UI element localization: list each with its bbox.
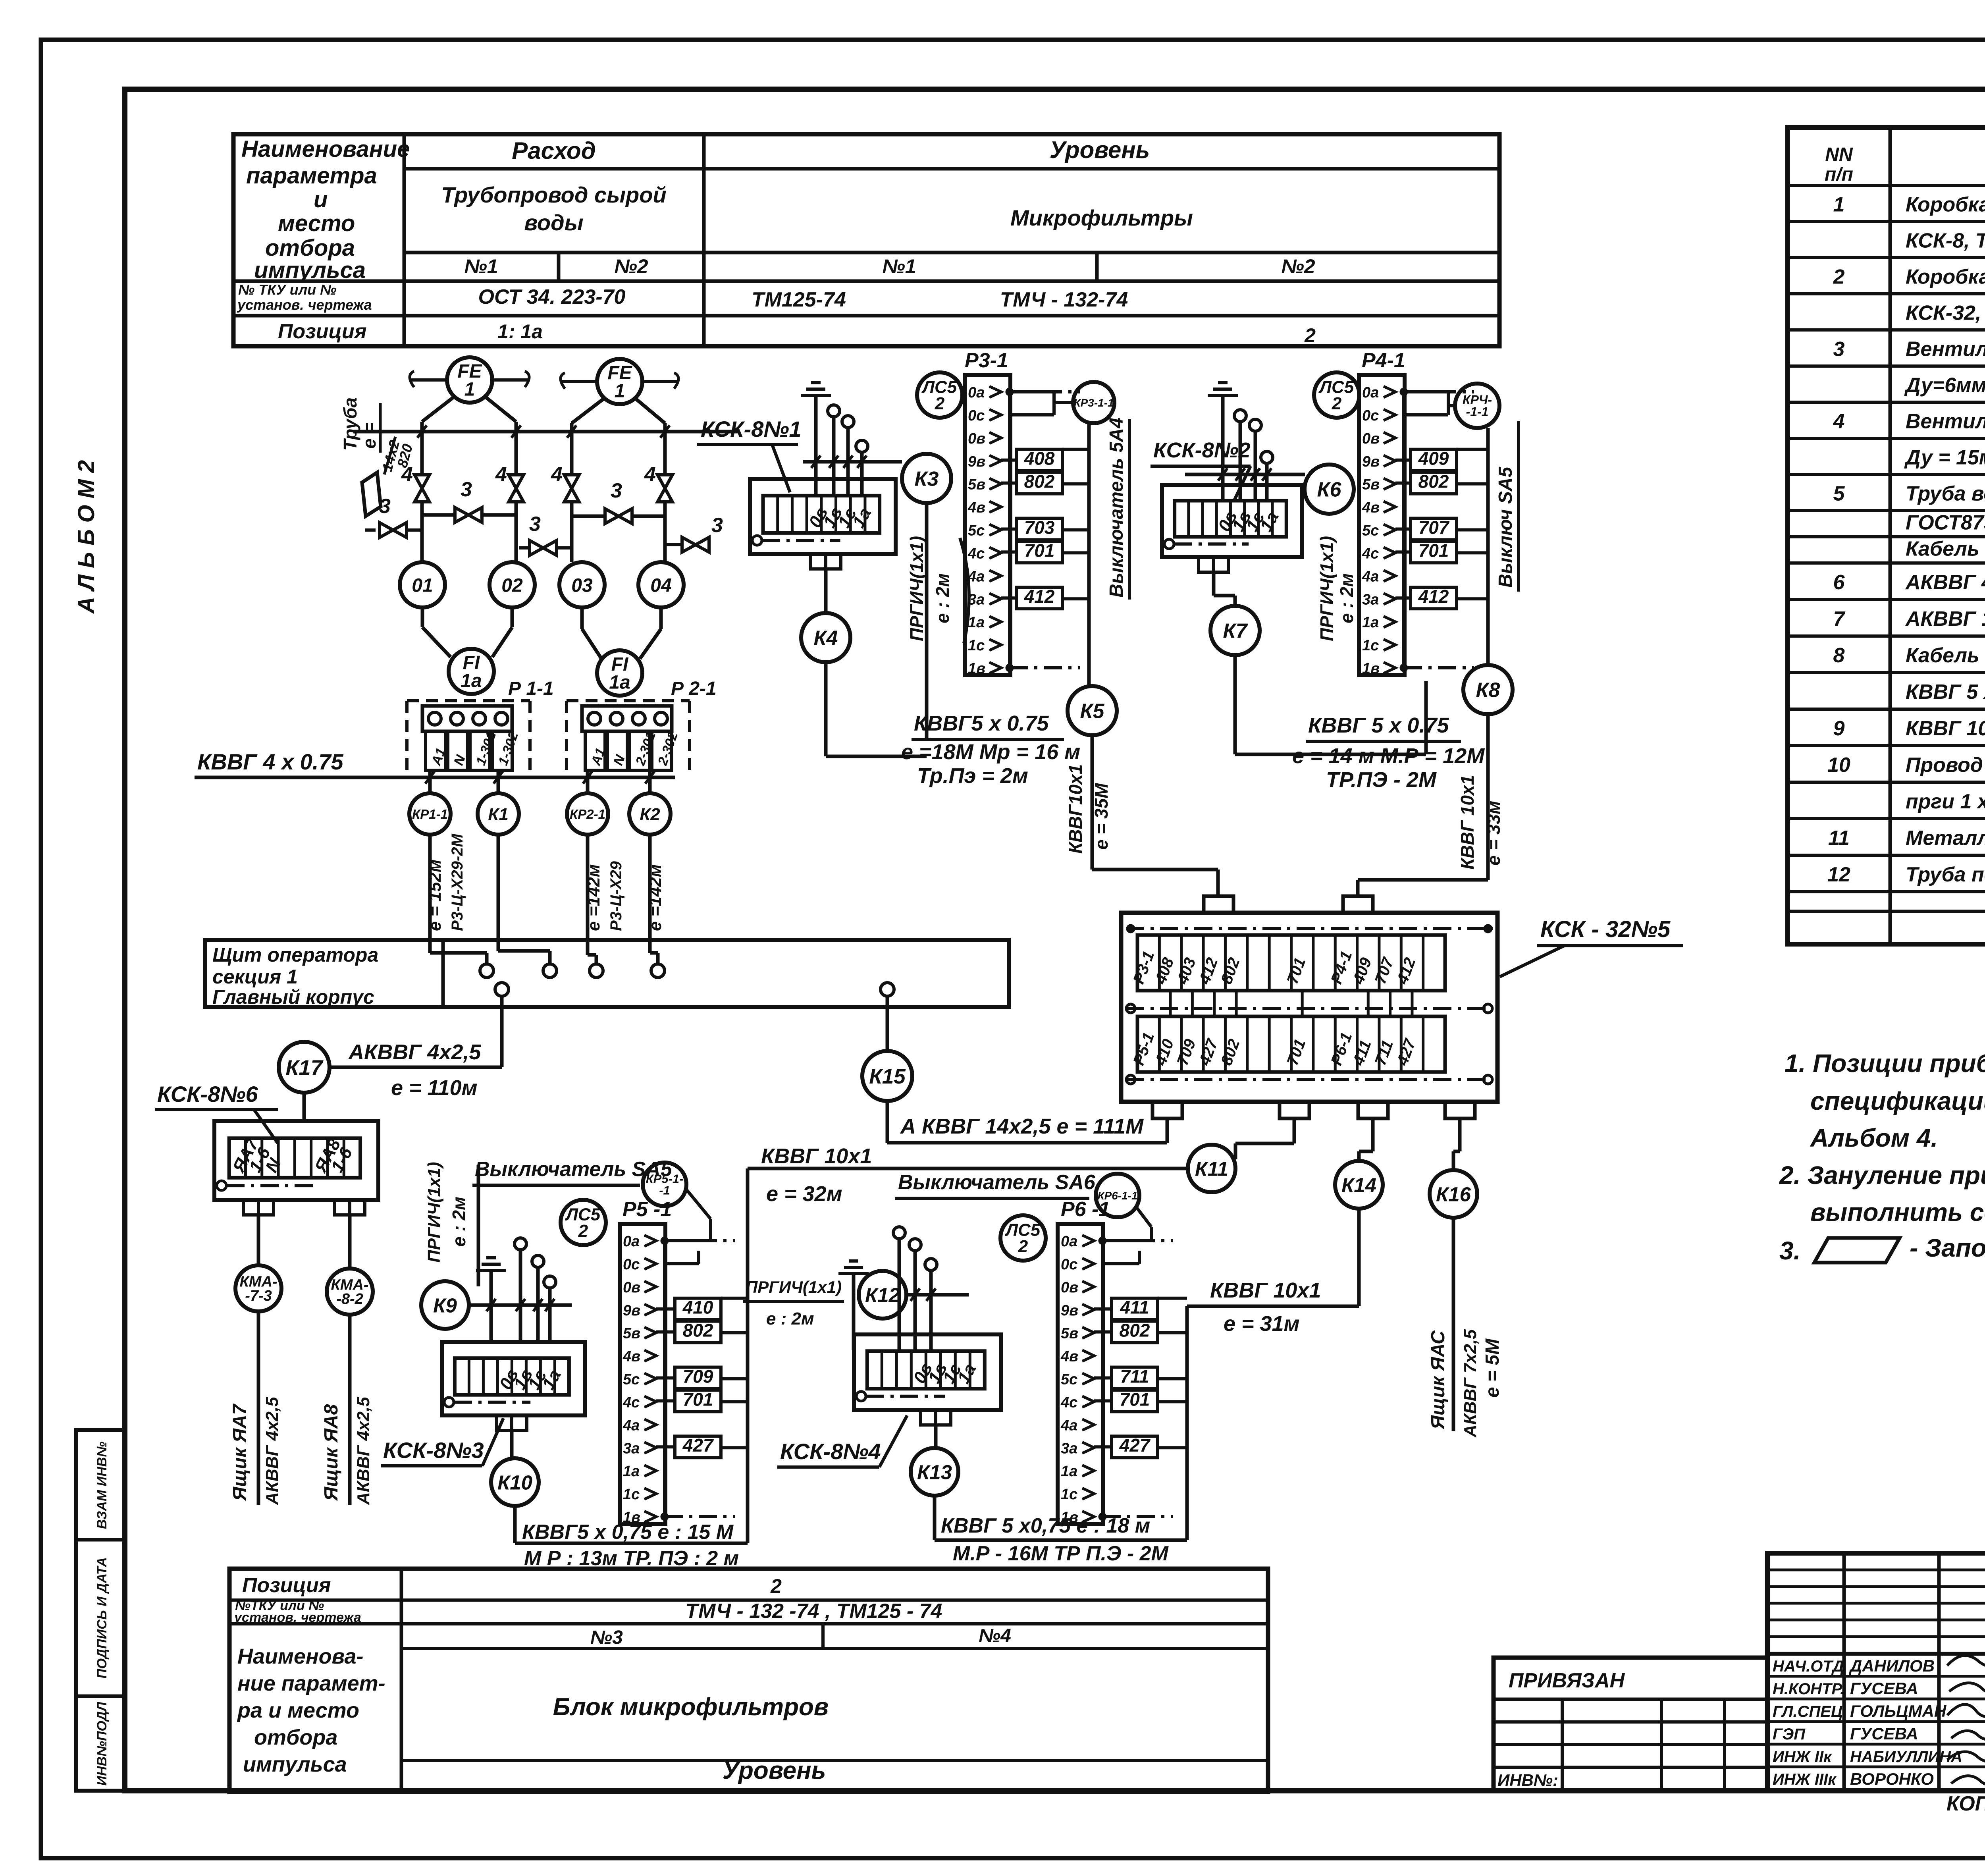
svg-text:Главный корпус: Главный корпус [212, 986, 374, 1008]
svg-text:2: 2 [1833, 266, 1845, 289]
svg-text:ТМЧ - 132 -74 , ТМ125: ТМЧ - 132 -74 , ТМ125 - 74 [686, 1600, 942, 1623]
terminal row P5-1 wire 410 [675, 1298, 721, 1320]
svg-text:412: 412 [1024, 586, 1055, 607]
svg-text:КР2-1: КР2-1 [570, 807, 605, 821]
wire stub to K16 [1458, 1118, 1462, 1151]
svg-text:К9: К9 [433, 1294, 457, 1317]
svg-text:Р3-Ц-Х29-2М: Р3-Ц-Х29-2М [449, 833, 466, 931]
impulse lines from FE [422, 397, 454, 422]
wire stub to K11 [1293, 1118, 1296, 1143]
svg-text:е : 2м: е : 2м [449, 1197, 469, 1247]
valve 4 (2) [509, 475, 523, 502]
svg-text:Ящик ЯАС: Ящик ЯАС [1428, 1330, 1449, 1430]
trunk cable to K5 [1087, 423, 1091, 686]
svg-text:КСК - 32№5: КСК - 32№5 [1540, 916, 1671, 942]
terminal row P4-1 wire line 412 [1395, 596, 1411, 600]
svg-text:1: 1 [615, 380, 625, 401]
svg-text:409: 409 [1418, 448, 1449, 469]
pressure tap 03 [559, 562, 605, 607]
svg-text:Р 1-1: Р 1-1 [508, 678, 554, 699]
svg-text:5с: 5с [623, 1371, 640, 1388]
svg-text:А КВВГ 14х2,5 е = 111М: А КВВГ 14х2,5 е = 111М [900, 1114, 1144, 1138]
svg-text:ВЗАМ ИНВ№: ВЗАМ ИНВ№ [94, 1442, 110, 1529]
svg-text:Выключатель 5А4: Выключатель 5А4 [1106, 418, 1127, 598]
wire pins to K6 [1185, 473, 1305, 476]
cable circle К4 [801, 613, 850, 662]
cable circle К2 [629, 793, 671, 835]
svg-text:К6: К6 [1317, 478, 1342, 501]
cable AKVVG14x2.5 e111 [886, 1101, 889, 1143]
svg-text:Трубопровод сырой: Трубопровод сырой [441, 182, 666, 207]
svg-text:6: 6 [1833, 571, 1845, 594]
svg-text:К8: К8 [1476, 679, 1500, 702]
svg-text:0в: 0в [1061, 1279, 1078, 1296]
svg-text:КСК-8№6: КСК-8№6 [157, 1082, 258, 1107]
svg-text:спецификации оборудования А: спецификации оборудования АТХ. СО. [1810, 1087, 1985, 1115]
svg-text:КВВГ 5 х 0.75: КВВГ 5 х 0.75 [1308, 713, 1449, 737]
lines to flow indicators [421, 607, 424, 627]
ground symbol 2 [1208, 394, 1238, 397]
cable circle К9 [421, 1281, 469, 1329]
svg-text:КСК-8№4: КСК-8№4 [780, 1439, 881, 1464]
svg-text:Коробка соединительная: Коробка соединительная [1906, 193, 1985, 216]
svg-text:ГУСЕВА: ГУСЕВА [1850, 1679, 1918, 1698]
cable circle К8 [1463, 665, 1513, 714]
cable K5 to KCK-32 [1091, 735, 1094, 870]
svg-text:5в: 5в [1061, 1325, 1078, 1342]
svg-text:411: 411 [1120, 1297, 1149, 1318]
wire KCK-8N1 to K4 [824, 569, 828, 613]
svg-text:№3: №3 [590, 1627, 623, 1648]
wire K9 up [477, 1165, 480, 1286]
svg-text:1с: 1с [968, 637, 985, 654]
svg-text:NN: NN [1825, 144, 1853, 165]
svg-text:2: 2 [578, 1221, 588, 1241]
svg-text:5: 5 [1833, 482, 1845, 505]
svg-text:установ. чертежа: установ. чертежа [233, 1610, 361, 1625]
cable K16 down [1452, 1218, 1455, 1431]
svg-text:секция 1: секция 1 [212, 966, 298, 988]
svg-text:4с: 4с [967, 545, 985, 562]
svg-text:КСК-32, ТУ36. 1753: КСК-32, ТУ36. 1753 [1906, 302, 1985, 325]
svg-text:4: 4 [1833, 410, 1845, 433]
svg-text:ВОРОНКО: ВОРОНКО [1850, 1770, 1934, 1788]
wires P4-1 to trunk [1456, 482, 1488, 486]
terminal row P6-1 wire line 411 [1094, 1307, 1112, 1311]
valve 4 (3) [564, 475, 579, 502]
pins KCK-8N3 [515, 1238, 526, 1250]
cable circle КМА-8-2 [327, 1269, 373, 1315]
svg-text:е = 33м: е = 33м [1483, 801, 1504, 866]
cable circle КР6-1-1 [1096, 1174, 1139, 1217]
svg-text:Р4-1: Р4-1 [1362, 349, 1405, 372]
svg-text:11: 11 [1828, 827, 1850, 850]
svg-text:е : 2м: е : 2м [932, 573, 953, 623]
wire K4 cable [824, 662, 828, 756]
junction box KCK-32 N5 outline [1121, 913, 1497, 1102]
terminal row P6-1 wire 701 [1112, 1390, 1158, 1411]
junction box KCK-8N2 [1162, 485, 1302, 557]
svg-text:4с: 4с [1060, 1394, 1077, 1411]
svg-text:е : 2м: е : 2м [1336, 573, 1357, 623]
junction box KCK-8N6 [214, 1121, 378, 1200]
svg-text:2: 2 [935, 394, 945, 413]
monitor LC5 group5 [1000, 1215, 1046, 1261]
svg-text:ИНЖ IIIк: ИНЖ IIIк [1773, 1771, 1837, 1788]
svg-text:Кабель контрольный с медной жи: Кабель контрольный с медной жилой [1906, 644, 1985, 667]
svg-text:2: 2 [1018, 1237, 1028, 1256]
svg-text:ГОЛЬЦМАН: ГОЛЬЦМАН [1850, 1702, 1947, 1720]
svg-text:Блок микрофильтров: Блок микрофильтров [553, 1693, 829, 1721]
svg-text:4а: 4а [1060, 1417, 1077, 1434]
svg-text:3.: 3. [1779, 1236, 1800, 1265]
svg-text:4в: 4в [622, 1348, 640, 1365]
ground symbol 4 [476, 1269, 506, 1272]
svg-text:е = 14 м М.Р = 12М: е = 14 м М.Р = 12М [1292, 744, 1485, 768]
svg-text:К14: К14 [1341, 1174, 1376, 1196]
monitor LC5 group2 [917, 372, 962, 418]
wires KMA down [257, 1311, 260, 1505]
svg-text:К4: К4 [814, 627, 838, 650]
svg-text:1в: 1в [1061, 1509, 1078, 1526]
svg-text:Р 2-1: Р 2-1 [671, 678, 717, 699]
svg-text:КВВГ 4 х 0.75: КВВГ 4 х 0.75 [197, 749, 343, 774]
svg-text:НАЧ.ОТД: НАЧ.ОТД [1773, 1658, 1844, 1675]
wires P6-1 to trunk [1158, 1331, 1187, 1334]
svg-text:0а: 0а [1362, 384, 1379, 401]
svg-text:7: 7 [1833, 607, 1846, 630]
svg-text:К2: К2 [640, 805, 660, 824]
svg-text:Уровень: Уровень [723, 1757, 826, 1784]
svg-text:КР1-1: КР1-1 [412, 807, 448, 821]
wires KCK-8N6 to KMA [257, 1215, 260, 1265]
svg-text:прги 1 х 1 кв. мм.: прги 1 х 1 кв. мм. [1906, 790, 1985, 813]
svg-text:427: 427 [682, 1435, 714, 1456]
svg-text:Вентиль запорный муфтовый: Вентиль запорный муфтовый [1906, 410, 1985, 433]
svg-text:е = 5М: е = 5М [1482, 1338, 1503, 1398]
cable K10 KVVG5x0.75 [513, 1506, 517, 1543]
wire K17 to KCK-8N6 [303, 1093, 306, 1121]
terminal row P3-1 wire 408 [1016, 449, 1062, 471]
wires KP6-1-1 loop [1103, 1239, 1151, 1242]
svg-text:АКВВГ 4 х 2.5 кв.мм: АКВВГ 4 х 2.5 кв.мм [1905, 571, 1985, 594]
cable circle К13 [911, 1448, 958, 1496]
svg-text:е = 152м: е = 152м [425, 859, 445, 931]
svg-text:Ду = 15мм, 15ч 8П2: Ду = 15мм, 15ч 8П2 [1904, 446, 1985, 469]
svg-text:802: 802 [1120, 1320, 1150, 1341]
svg-text:5с: 5с [968, 523, 985, 539]
equalizer valve 3 (1) [455, 507, 482, 522]
svg-text:2: 2 [770, 1575, 782, 1597]
svg-text:1с: 1с [1362, 637, 1379, 654]
pins KCK-8N2 [1234, 410, 1246, 422]
svg-text:9в: 9в [968, 453, 985, 470]
svg-text:3: 3 [529, 513, 541, 536]
cable circle КР2-1 [567, 793, 608, 835]
svg-text:ТР.ПЭ - 2М: ТР.ПЭ - 2М [1326, 768, 1437, 792]
terminal row P3-1 wire 701 [1016, 541, 1062, 563]
monitor LC5 group3 [1314, 372, 1359, 418]
svg-text:4: 4 [551, 463, 563, 486]
svg-text:ТМ125-74: ТМ125-74 [752, 288, 846, 311]
wire pins to K9 [469, 1303, 572, 1307]
trunk cable to K8 [1486, 428, 1490, 665]
wire stub to K14 [1371, 1118, 1375, 1151]
pins KCK-8N4 [893, 1227, 905, 1239]
svg-text:ГЛ.СПЕЦ.: ГЛ.СПЕЦ. [1773, 1703, 1847, 1720]
terminal row P3-1 wire line 802 [1001, 482, 1016, 485]
svg-text:отбора: отбора [254, 1726, 337, 1749]
terminal row P5-1 wire line 427 [656, 1445, 675, 1448]
svg-text:3а: 3а [623, 1440, 640, 1457]
svg-text:1а: 1а [968, 614, 985, 631]
terminal row P5-1 wire 802 [675, 1321, 721, 1343]
valve connection lines [420, 502, 424, 562]
pressure tap 02 [490, 562, 535, 607]
terminal row P3-1 wire line 408 [1001, 459, 1016, 462]
svg-text:709: 709 [683, 1366, 713, 1386]
terminal row P4-1 strip [1359, 375, 1405, 675]
svg-text:-1-1: -1-1 [1466, 405, 1489, 419]
cable K8 to KCK-32 [1486, 714, 1490, 880]
wire KCK-8N4 to K13 [934, 1425, 938, 1448]
svg-text:707: 707 [1418, 517, 1450, 538]
svg-text:Металлорукав Р3-Ц-Х29: Металлорукав Р3-Ц-Х29 [1906, 827, 1985, 850]
svg-text:Вентиль запорный муфтовый: Вентиль запорный муфтовый [1906, 338, 1985, 361]
cable circle КМА-7-3 [235, 1265, 281, 1311]
svg-text:Альбом 4.: Альбом 4. [1810, 1124, 1938, 1152]
svg-text:КВВГ5 х 0.75: КВВГ5 х 0.75 [914, 711, 1049, 735]
svg-text:4а: 4а [967, 568, 985, 585]
terminal row P6-1 strip [1058, 1224, 1103, 1524]
svg-text:ПРГИЧ(1х1): ПРГИЧ(1х1) [746, 1278, 842, 1296]
svg-text:воды: воды [524, 210, 583, 235]
svg-text:К11: К11 [1195, 1157, 1228, 1180]
terminal row P4-1 wire line 409 [1395, 459, 1411, 462]
wire pins to K3 [803, 460, 902, 464]
terminal row P5-1 wire 709 [675, 1367, 721, 1389]
svg-text:Коробка соединительная: Коробка соединительная [1906, 266, 1985, 289]
svg-text:импульса: импульса [243, 1753, 347, 1776]
wire pins to K12 [906, 1293, 969, 1297]
svg-text:КР3-1-1: КР3-1-1 [1073, 397, 1114, 409]
svg-text:параметра: параметра [246, 163, 377, 189]
svg-text:Тр.Пэ = 2м: Тр.Пэ = 2м [917, 764, 1028, 788]
svg-text:3: 3 [611, 479, 622, 502]
pins KCK-8N1 [828, 405, 840, 417]
svg-text:КВВГ 10х1: КВВГ 10х1 [1210, 1278, 1321, 1302]
wire K3 down [925, 503, 929, 738]
svg-text:КСК-8№3: КСК-8№3 [383, 1438, 484, 1463]
operator panel [205, 940, 1009, 1007]
svg-text:е =18М Мр = 16 м: е =18М Мр = 16 м [901, 740, 1080, 764]
KCK-32 upper terminal row [1137, 935, 1445, 991]
terminal row P5-1 wire line 701 [656, 1399, 675, 1402]
wires K circles to operator panel [428, 835, 432, 953]
svg-text:2: 2 [1304, 324, 1316, 347]
svg-text:К5: К5 [1080, 700, 1105, 723]
terminal row P4-1 wire 701 [1411, 541, 1457, 563]
flow indicator FI2 [597, 650, 642, 696]
svg-text:ПРИВЯЗАН: ПРИВЯЗАН [1509, 1669, 1625, 1692]
svg-text:Кабель контрольный ГОСТ1508-78: Кабель контрольный ГОСТ1508-78Е [1906, 538, 1985, 561]
wire panel to K15 [886, 996, 889, 1051]
bottom table grid [229, 1569, 1268, 1792]
svg-text:ПРГИЧ(1х1): ПРГИЧ(1х1) [906, 536, 927, 641]
terminal row P5-1 wire line 410 [656, 1307, 675, 1311]
svg-text:8: 8 [1833, 644, 1845, 667]
privyazan block [1494, 1658, 1767, 1791]
svg-text:1в: 1в [623, 1509, 640, 1526]
svg-text:701: 701 [1120, 1389, 1150, 1409]
valve 4 (1) [414, 475, 429, 502]
svg-text:ИНВ№ПОДЛ: ИНВ№ПОДЛ [94, 1702, 110, 1786]
svg-text:1с: 1с [1061, 1486, 1077, 1503]
svg-text:АКВВГ 7х2,5: АКВВГ 7х2,5 [1461, 1329, 1480, 1438]
cable circle К17 [279, 1042, 330, 1093]
pressure tap 04 [638, 562, 684, 607]
cable circle К14 [1335, 1161, 1383, 1209]
svg-text:АКВВГ 4х2,5: АКВВГ 4х2,5 [354, 1397, 373, 1505]
svg-text:Н.КОНТР.: Н.КОНТР. [1773, 1680, 1844, 1698]
svg-text:ПРГИЧ(1х1): ПРГИЧ(1х1) [1316, 536, 1337, 641]
cable K11 KVVG10x1 e32 [748, 1167, 1188, 1170]
svg-text:КСК-8, ТУ36. 1753: КСК-8, ТУ36. 1753 [1906, 229, 1985, 253]
cable circle К12 [859, 1271, 906, 1319]
svg-text:и: и [314, 187, 328, 212]
cable circle К5 [1068, 686, 1117, 735]
KCK-32 lower terminal row [1137, 1016, 1445, 1072]
svg-text:К7: К7 [1223, 620, 1248, 643]
svg-text:802: 802 [683, 1320, 713, 1341]
pressure tap 01 [400, 562, 445, 607]
ground symbol 5 [838, 1272, 869, 1275]
blank parallelogram [362, 472, 381, 516]
terminal row P3-1 strip [965, 375, 1010, 675]
drain valve 3 (1) [380, 523, 407, 537]
svg-text:4: 4 [495, 463, 507, 486]
table A grid [233, 134, 1499, 346]
svg-text:ГЭП: ГЭП [1773, 1726, 1806, 1743]
svg-text:ПОДПИСЬ И ДАТА: ПОДПИСЬ И ДАТА [94, 1557, 110, 1679]
terminal row P4-1 wire line 701 [1395, 550, 1411, 553]
terminal row P6-1 wire line 802 [1094, 1330, 1112, 1334]
terminal row P6-1 wire line 427 [1094, 1445, 1112, 1448]
cable circle К15 [862, 1051, 912, 1101]
svg-text:3а: 3а [1362, 591, 1379, 608]
svg-text:№1: №1 [882, 255, 916, 278]
terminal row P4-1 wire 802 [1411, 472, 1457, 494]
svg-text:1а: 1а [461, 670, 482, 691]
svg-text:2. Зануление приборов, соедин: 2. Зануление приборов, соединительных ко… [1779, 1161, 1985, 1190]
svg-text:-1: -1 [659, 1183, 670, 1197]
svg-text:9в: 9в [1061, 1302, 1078, 1319]
wires P3-1 to trunk [1062, 482, 1089, 486]
svg-text:02: 02 [501, 575, 523, 596]
svg-text:КСК-8№1: КСК-8№1 [701, 416, 802, 442]
svg-text:3: 3 [711, 514, 723, 537]
svg-text:4в: 4в [1060, 1348, 1078, 1365]
svg-text:04: 04 [650, 575, 671, 596]
svg-text:711: 711 [1120, 1366, 1149, 1386]
svg-text:Наименова-: Наименова- [237, 1645, 364, 1668]
svg-text:Ящик ЯА8: Ящик ЯА8 [321, 1404, 342, 1502]
svg-text:03: 03 [571, 575, 593, 596]
svg-text:КВВГ10х1: КВВГ10х1 [1065, 764, 1086, 854]
svg-text:ДАНИЛОВ: ДАНИЛОВ [1849, 1656, 1935, 1675]
svg-text:3: 3 [461, 478, 472, 501]
svg-text:Расход: Расход [512, 137, 596, 164]
svg-text:К16: К16 [1436, 1183, 1471, 1205]
svg-text:3а: 3а [968, 591, 985, 608]
svg-text:- Заполняется при привязке п: - Заполняется при привязке проекта. [1910, 1234, 1985, 1262]
svg-text:0с: 0с [1061, 1256, 1077, 1273]
svg-text:Уровень: Уровень [1050, 137, 1150, 163]
svg-text:№1: №1 [464, 255, 498, 278]
svg-text:Наименование: Наименование [241, 136, 410, 162]
left stamp strip [76, 1430, 125, 1791]
svg-text:0с: 0с [968, 407, 985, 424]
svg-text:КВВГ 10х1: КВВГ 10х1 [761, 1144, 872, 1168]
svg-text:0с: 0с [1362, 407, 1379, 424]
junction box KCK-8N3 [442, 1342, 585, 1415]
terminal row P4-1 wire 409 [1411, 449, 1457, 471]
KCK-32 inner links and stubs [1169, 991, 1172, 1016]
svg-text:Выключ SA5: Выключ SA5 [1495, 466, 1516, 588]
svg-text:Р5 -1: Р5 -1 [622, 1198, 672, 1221]
svg-text:К15: К15 [869, 1065, 906, 1088]
svg-text:К10: К10 [497, 1471, 532, 1494]
svg-text:НАБИУЛЛИНА: НАБИУЛЛИНА [1850, 1748, 1962, 1766]
svg-text:АКВВГ 4х2,5: АКВВГ 4х2,5 [262, 1397, 282, 1505]
terminal row P6-1 wire 427 [1112, 1436, 1158, 1458]
wires KRCH-1-1 loop [1405, 390, 1448, 393]
terminal row P5-1 wire 701 [675, 1390, 721, 1411]
svg-text:5с: 5с [1362, 523, 1379, 539]
svg-text:ГУСЕВА: ГУСЕВА [1850, 1724, 1918, 1743]
svg-text:ГОСТ8734-75/ГОСТ8733-74: ГОСТ8734-75/ГОСТ8733-74 [1906, 511, 1985, 534]
svg-text:1. Позиции приборов соответ: 1. Позиции приборов соответствуют [1785, 1049, 1985, 1078]
svg-text:1: 1а: 1: 1а [497, 320, 543, 343]
svg-text:ПРГИЧ(1х1): ПРГИЧ(1х1) [424, 1162, 444, 1263]
svg-text:1с: 1с [623, 1486, 640, 1503]
svg-text:0в: 0в [968, 430, 985, 447]
svg-text:1: 1 [464, 379, 475, 400]
terminal row P6-1 wire 802 [1112, 1321, 1158, 1343]
svg-text:9: 9 [1833, 717, 1845, 740]
monitor LC5 group4 [561, 1200, 606, 1245]
wires KP3-1-1 loop [1010, 390, 1054, 393]
svg-text:М.Р - 16М ТР П.Э - 2М: М.Р - 16М ТР П.Э - 2М [953, 1542, 1169, 1565]
svg-text:КВВГ 10 х 1 кв. мм.: КВВГ 10 х 1 кв. мм. [1906, 717, 1985, 740]
svg-text:КОПИРОВАЛ: КОРШУНОВА: КОПИРОВАЛ: КОРШУНОВА [1946, 1792, 1985, 1815]
svg-text:№2: №2 [614, 255, 648, 278]
drain valve 3 (2) [530, 540, 557, 555]
svg-text:412: 412 [1418, 586, 1449, 607]
flow element FE1 [447, 357, 492, 403]
cable circle КР3-1-1 [1073, 382, 1114, 423]
wires KP5-1-1 loop [665, 1239, 711, 1242]
svg-text:4а: 4а [1362, 568, 1379, 585]
junction box KCK-8N1 [750, 479, 896, 554]
terminal row P5-1 wire 427 [675, 1436, 721, 1458]
svg-text:импульса: импульса [254, 257, 366, 283]
svg-text:место: место [278, 210, 355, 236]
svg-text:410: 410 [682, 1297, 713, 1318]
svg-text:АКВВГ 14 х 2.5 кв.мм: АКВВГ 14 х 2.5 кв.мм [1905, 607, 1985, 630]
terminal row P3-1 wire 412 [1016, 587, 1062, 609]
svg-text:408: 408 [1024, 448, 1055, 469]
